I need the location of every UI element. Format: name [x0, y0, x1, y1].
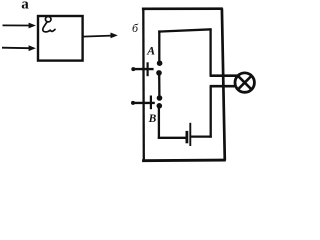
- switch A upper contact: [157, 60, 163, 66]
- svg-text:б: б: [132, 21, 139, 35]
- svg-text:а: а: [21, 0, 29, 12]
- wire: lamp to battery right vertical: [210, 85, 212, 137]
- lamp HL bulb circle: [235, 73, 254, 92]
- output wire: [83, 33, 118, 39]
- wire: between switch A and switch B: [158, 74, 160, 97]
- wire: battery negative lead: [158, 137, 186, 139]
- switch A handle knob: [131, 67, 135, 71]
- demo board frame: [142, 8, 226, 162]
- input wire 1: [3, 23, 36, 29]
- battery GB long positive plate: [189, 123, 191, 146]
- battery GB short negative plate: [185, 131, 188, 143]
- AND gate box U1: [38, 16, 83, 61]
- wire: switch B to battery (left drop): [158, 106, 160, 139]
- lamp HL cross stroke 2: [238, 76, 252, 90]
- switch A lower contact: [156, 70, 162, 76]
- switch A blade: [133, 68, 153, 70]
- wire: right drop from rail to lamp top lead: [209, 29, 211, 76]
- wire: lamp bottom lead: [210, 85, 237, 88]
- AND symbol &: [43, 17, 55, 32]
- switch B blade bar: [150, 96, 152, 110]
- switch B lower contact: [157, 103, 163, 109]
- svg-text:В: В: [148, 113, 157, 125]
- wire: feed from top rail to switch A: [158, 30, 160, 62]
- switch A blade bar: [147, 62, 149, 76]
- wire: top rail: [158, 29, 211, 31]
- switch B blade: [133, 102, 154, 104]
- wire: lamp top lead: [210, 74, 238, 77]
- lamp HL cross stroke 1: [238, 76, 252, 90]
- wire: battery positive lead: [191, 135, 212, 137]
- switch B upper contact: [157, 95, 163, 101]
- switch B handle knob: [131, 101, 135, 105]
- svg-text:А: А: [146, 44, 155, 58]
- input wire 2: [2, 45, 36, 51]
